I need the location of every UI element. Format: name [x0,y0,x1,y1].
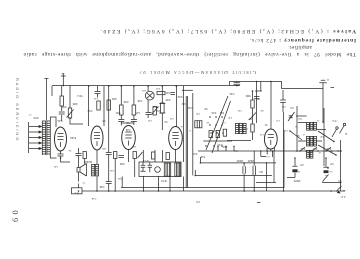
svg-text:6.3: 6.3 [266,155,270,157]
svg-text:S10: S10 [211,111,216,115]
svg-text:C32: C32 [237,109,242,111]
svg-text:C2: C2 [290,106,294,110]
svg-text:C26: C26 [137,99,142,103]
svg-text:R11: R11 [155,87,160,89]
svg-text:T.2: T.2 [82,181,86,183]
svg-text:R7: R7 [248,117,252,121]
svg-text:R15: R15 [165,98,170,102]
svg-text:S19: S19 [300,147,305,151]
svg-text:6V6G: 6V6G [70,136,76,139]
svg-text:C30: C30 [229,92,234,96]
svg-text:16MF: 16MF [247,159,254,163]
svg-text:C1: C1 [298,117,302,121]
svg-text:C8: C8 [300,163,304,167]
svg-text:C34: C34 [281,105,286,107]
svg-text:V5: V5 [102,119,106,123]
svg-text:S21: S21 [326,147,331,151]
svg-text:C28: C28 [109,169,114,171]
svg-text:R28: R28 [72,102,77,106]
svg-text:R20: R20 [131,145,136,147]
svg-text:C19: C19 [93,97,98,99]
svg-text:B.1: B.1 [74,192,79,196]
svg-text:S9: S9 [204,107,208,111]
svg-text:IFT.1: IFT.1 [143,159,149,163]
svg-text:S20: S20 [312,147,317,151]
svg-text:S11: S11 [219,111,224,115]
svg-text:8MF: 8MF [245,94,251,98]
svg-text:0.5A: 0.5A [91,197,96,200]
svg-text:R21: R21 [111,97,116,101]
svg-text:L2: L2 [320,135,323,139]
svg-text:L11: L11 [221,121,225,123]
svg-text:S2: S2 [296,134,300,138]
svg-text:SPK: SPK [33,116,38,120]
svg-text:A: A [327,78,329,82]
svg-text:V4: V4 [68,149,71,151]
svg-text:R8: R8 [260,109,264,111]
svg-text:6.3V: 6.3V [217,143,223,147]
svg-text:R30: R30 [61,105,66,109]
svg-text:S4: S4 [338,179,342,183]
svg-text:C21: C21 [165,91,170,95]
svg-text:IFT.2: IFT.2 [161,179,167,183]
svg-text:R14: R14 [155,109,160,113]
svg-text:TR.1: TR.1 [77,94,83,98]
svg-text:C24: C24 [125,128,130,132]
svg-text:1M: 1M [136,111,140,115]
svg-text:S1: S1 [294,125,297,127]
svg-text:AC: AC [342,189,345,192]
svg-text:C22: C22 [181,102,186,106]
svg-text:R13: R13 [177,95,182,99]
svg-text:MAINS: MAINS [84,160,92,164]
svg-text:C20: C20 [87,109,92,113]
svg-text:C36: C36 [99,185,104,189]
svg-text:C6: C6 [329,170,333,172]
svg-text:R9: R9 [256,97,260,101]
svg-text:S13: S13 [192,152,197,156]
svg-text:L9: L9 [228,116,231,120]
svg-text:50K: 50K [115,111,120,115]
svg-text:V3: V3 [126,121,130,125]
svg-text:C13: C13 [259,133,264,135]
svg-text:E: E [345,132,347,136]
svg-text:L6: L6 [180,125,183,127]
svg-text:V2: V2 [164,120,168,124]
svg-text:R24: R24 [119,162,124,166]
svg-text:R26: R26 [101,147,106,149]
svg-text:R23: R23 [117,177,122,179]
svg-text:R18: R18 [123,100,128,104]
svg-text:A.C.: A.C. [340,195,345,199]
svg-text:L7: L7 [188,129,191,131]
svg-text:25MF: 25MF [293,179,300,183]
svg-text:S8: S8 [206,121,209,123]
svg-text:2.5: 2.5 [196,200,200,204]
svg-text:V1: V1 [264,123,268,127]
svg-text:C4A: C4A [57,119,62,123]
svg-text:C23: C23 [169,117,174,119]
svg-text:16MF: 16MF [236,159,243,163]
svg-text:C7: C7 [28,113,32,115]
svg-text:C25: C25 [147,119,152,121]
svg-text:C11: C11 [275,119,280,121]
svg-text:S23: S23 [141,89,146,91]
svg-text:V4: V4 [234,149,238,153]
svg-text:JACK: JACK [152,105,159,109]
svg-text:L3: L3 [316,119,319,121]
svg-text:C31: C31 [187,106,192,110]
svg-text:C5: C5 [330,162,334,166]
svg-text:S14: S14 [200,155,205,159]
svg-text:L8: L8 [196,112,199,116]
svg-text:C40: C40 [53,165,58,167]
svg-text:L1: L1 [302,133,305,135]
svg-text:R2: R2 [259,170,263,174]
svg-text:P.U.: P.U. [331,119,336,123]
